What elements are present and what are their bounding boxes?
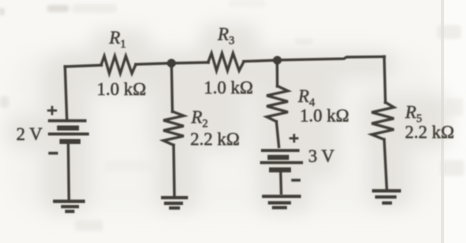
- node A junction dot: [167, 59, 176, 68]
- resistor R3: [208, 53, 244, 70]
- wire R5 to ground: [384, 139, 387, 189]
- svg-text:1.0 kΩ: 1.0 kΩ: [204, 78, 253, 98]
- battery V2 minus sign: [291, 179, 300, 182]
- svg-text:2 V: 2 V: [16, 124, 42, 144]
- wire R2 to ground: [172, 145, 175, 196]
- ground for R5: [372, 191, 401, 203]
- svg-text:2.2 kΩ: 2.2 kΩ: [405, 122, 454, 142]
- wire right vertical to R5: [384, 57, 385, 103]
- resistor R4: [267, 86, 288, 122]
- wire node B to top-right corner: [277, 57, 384, 60]
- wire R3 to node B: [244, 60, 278, 61]
- wire battery V1 to ground: [67, 144, 70, 200]
- ground for battery V1: [53, 201, 85, 211]
- wire R4 to battery V2: [276, 121, 279, 146]
- node B junction dot: [273, 56, 282, 65]
- resistor R2: [163, 112, 183, 146]
- battery V1 plates: [48, 121, 89, 142]
- battery V1 minus sign: [48, 152, 58, 155]
- wire node A down to R2: [170, 63, 174, 112]
- battery V1 plus sign: [47, 106, 57, 115]
- wire top-left horizontal: [65, 65, 102, 66]
- svg-text:2.2 kΩ: 2.2 kΩ: [190, 129, 239, 149]
- wire left vertical from corner to battery: [65, 67, 67, 120]
- ground for R2: [161, 198, 188, 208]
- ground for battery V2: [262, 196, 301, 207]
- wire battery V2 to ground: [279, 172, 282, 194]
- wire R1 to node A: [136, 63, 172, 64]
- svg-text:1.0 kΩ: 1.0 kΩ: [300, 106, 349, 126]
- resistor R1: [101, 56, 136, 73]
- wire node B down to R4: [276, 60, 279, 86]
- resistor R5: [372, 102, 394, 139]
- battery V2 plus sign: [289, 134, 298, 143]
- svg-text:3 V: 3 V: [308, 146, 334, 166]
- battery V2 plates: [260, 151, 303, 170]
- wire node A to R3: [171, 61, 208, 64]
- svg-text:1.0 kΩ: 1.0 kΩ: [97, 79, 146, 99]
